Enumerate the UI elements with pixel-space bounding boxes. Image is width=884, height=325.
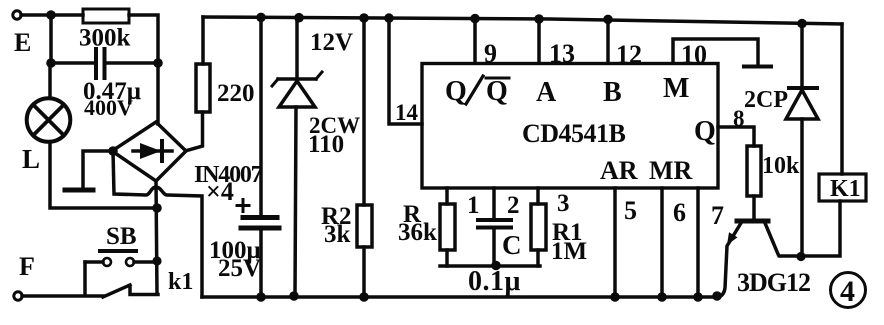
diode 2CP <box>797 19 807 29</box>
svg-text:5: 5 <box>624 196 637 225</box>
resistor R 36k pin1 <box>445 188 449 204</box>
node bridge left <box>108 146 118 156</box>
svg-text:6: 6 <box>673 198 686 227</box>
wire DC- to bottom rail with hop <box>113 151 202 297</box>
svg-text:K1: K1 <box>830 176 861 202</box>
svg-text:L: L <box>22 144 40 174</box>
wire pin 9 <box>470 14 480 24</box>
wire pin 12 <box>603 15 613 25</box>
wire E to node <box>21 13 83 17</box>
wire bridge bottom to switches <box>156 181 157 294</box>
node lamp/AC <box>152 203 162 213</box>
bottom rail GND <box>202 295 719 299</box>
switch k1 <box>103 285 130 297</box>
svg-text:25V: 25V <box>218 255 261 282</box>
bridge rectifier diamond <box>112 122 186 181</box>
svg-text:2: 2 <box>507 192 520 219</box>
transistor 3DG12 <box>737 219 768 224</box>
node cap row right <box>153 58 163 68</box>
svg-text:400V: 400V <box>84 95 133 120</box>
svg-text:12: 12 <box>616 40 642 69</box>
svg-text:1: 1 <box>467 192 480 219</box>
wire 300k right to corner <box>129 15 158 63</box>
svg-text:CD4541B: CD4541B <box>522 119 626 148</box>
svg-text:k1: k1 <box>168 269 193 295</box>
svg-text:36k: 36k <box>398 219 437 246</box>
wire pin 5 <box>613 188 617 297</box>
svg-text:M: M <box>663 73 689 104</box>
lamp L <box>48 63 52 98</box>
resistor 10k <box>747 146 761 196</box>
bridge internal diode <box>133 149 172 153</box>
svg-text:110: 110 <box>308 131 344 158</box>
svg-text:8: 8 <box>733 106 745 131</box>
svg-text:MR: MR <box>649 156 693 185</box>
svg-text:E: E <box>14 28 31 57</box>
resistor R1 1M pin3 <box>536 188 540 204</box>
svg-text:×4: ×4 <box>206 177 234 206</box>
rail corner to 220 <box>201 17 205 64</box>
svg-text:7: 7 <box>711 201 724 230</box>
capacitor 0.47u 400V <box>51 61 95 65</box>
svg-text:AR: AR <box>600 156 638 185</box>
wire node down <box>49 15 53 63</box>
svg-text:A: A <box>536 77 557 108</box>
resistor 300k <box>83 9 129 23</box>
svg-text:0.1μ: 0.1μ <box>468 266 521 297</box>
svg-text:3: 3 <box>557 190 570 217</box>
svg-text:4: 4 <box>840 275 855 308</box>
svg-text:B: B <box>603 77 622 108</box>
svg-text:1M: 1M <box>551 238 587 265</box>
switch SB <box>100 249 136 253</box>
svg-text:C: C <box>502 230 522 260</box>
svg-text:10k: 10k <box>762 153 800 179</box>
figure number 4 <box>831 273 866 308</box>
svg-text:3k: 3k <box>324 221 351 248</box>
svg-text:220: 220 <box>217 80 255 107</box>
svg-text:SB: SB <box>106 223 137 250</box>
wire pin 7 <box>696 188 700 297</box>
svg-text:12V: 12V <box>310 29 353 56</box>
wire F to switch <box>22 294 103 298</box>
wire pin 13 <box>534 14 544 24</box>
zener 2CW110 <box>294 13 304 23</box>
wire bridge left to ground <box>83 151 112 187</box>
op IC CD4541B <box>422 64 718 189</box>
svg-text:14: 14 <box>395 100 419 125</box>
wire pin 8 Q output <box>718 127 754 146</box>
svg-text:10: 10 <box>681 40 707 69</box>
svg-text:9: 9 <box>484 39 497 68</box>
wire pin 10 <box>673 39 758 64</box>
svg-text:13: 13 <box>549 39 575 68</box>
relay K1 <box>840 24 844 174</box>
wire pin 6 <box>660 188 664 297</box>
capacitor 100u 25V <box>256 13 266 23</box>
svg-text:Q: Q <box>694 116 716 147</box>
resistor 220 <box>196 64 210 112</box>
node at cap row left <box>46 58 56 68</box>
svg-text:3DG12: 3DG12 <box>737 268 810 297</box>
node SB right <box>152 256 161 265</box>
wire to bridge top <box>156 63 160 124</box>
svg-text:Q: Q <box>486 76 508 107</box>
wire lamp to AC node <box>50 142 157 208</box>
svg-text:Q: Q <box>445 76 467 107</box>
svg-text:F: F <box>19 252 35 281</box>
capacitor C 0.1u pin2 <box>492 188 496 218</box>
terminal E <box>13 11 21 19</box>
wire pin 14 <box>384 13 394 23</box>
resistor R2 3k <box>359 13 369 23</box>
terminal F <box>14 292 22 300</box>
node at E junction top <box>46 10 56 20</box>
svg-text:2CP: 2CP <box>744 87 788 113</box>
wire oscillator bottom link <box>440 264 540 268</box>
ground <box>65 188 93 193</box>
+12V top rail <box>203 17 842 24</box>
